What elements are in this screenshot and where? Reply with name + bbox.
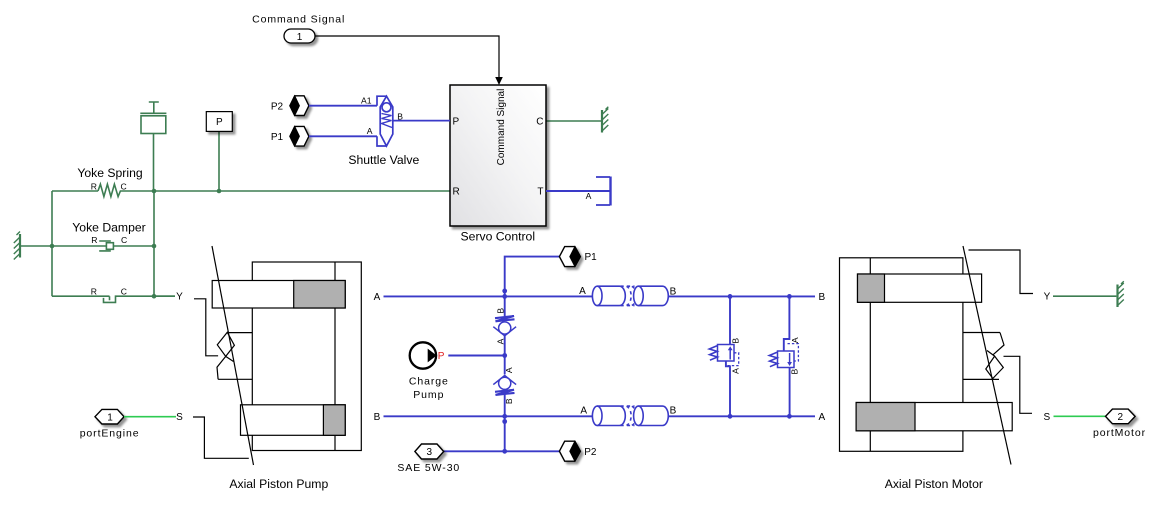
tag P2 (left, to shuttle) xyxy=(290,96,309,116)
label CV1 A xyxy=(495,338,505,344)
damper Yoke Damper symbol xyxy=(99,241,154,251)
tag 3 SAE 5W-30 xyxy=(415,444,444,459)
bracket: motor S port link xyxy=(1004,356,1033,413)
pump valve plate line xyxy=(334,262,336,451)
svg-text:Pump: Pump xyxy=(413,389,444,401)
node: spring/right-rail junction xyxy=(152,189,157,194)
pump joint top line xyxy=(227,332,252,334)
svg-text:Command Signal: Command Signal xyxy=(496,89,507,166)
label shuttle A1 xyxy=(361,96,372,106)
wire: pump B to pipe A (bottom line) xyxy=(384,415,593,417)
wire: RV1 to bottom line xyxy=(726,361,730,416)
svg-text:P: P xyxy=(453,117,460,128)
svg-text:A: A xyxy=(730,368,740,374)
pump bottom piston (gray) xyxy=(323,405,345,436)
node: P2 branch dot xyxy=(502,419,507,424)
svg-text:A: A xyxy=(586,191,592,201)
node: damper/right-rail junction xyxy=(152,244,157,249)
svg-text:R: R xyxy=(91,181,97,191)
label portEngine xyxy=(80,428,140,440)
node: wall/left-rail junction xyxy=(50,244,55,249)
svg-text:Yoke Spring: Yoke Spring xyxy=(77,166,142,180)
label motor A xyxy=(818,412,825,423)
svg-text:T: T xyxy=(537,187,543,198)
wire: top line to RV2 xyxy=(784,296,790,351)
svg-text:Servo Control: Servo Control xyxy=(461,230,536,244)
wire: check valve 1 to charge junction xyxy=(504,336,506,375)
svg-text:B: B xyxy=(670,286,677,297)
label motor B xyxy=(818,292,825,303)
motor swash plate diagonal xyxy=(963,246,1011,465)
svg-text:B: B xyxy=(670,406,677,417)
motor valve plate line xyxy=(869,258,871,452)
svg-text:C: C xyxy=(121,235,127,245)
wire: bottom junction to tag 3 xyxy=(444,450,505,452)
RV1 spring xyxy=(709,346,717,360)
wire: main yoke line to servo R xyxy=(154,190,450,192)
label portMotor xyxy=(1093,427,1146,439)
wire: motor S to portMotor xyxy=(1054,415,1106,417)
label pump S xyxy=(176,412,183,423)
label shuttle B xyxy=(397,111,403,121)
label P2 tap xyxy=(584,447,597,458)
node: top line center crossing xyxy=(502,294,507,299)
RV1 body xyxy=(718,345,735,362)
node: bottom line center crossing xyxy=(502,414,507,419)
wire: portEngine to pump S xyxy=(124,416,176,418)
check valve CV2 (charge to B) xyxy=(493,376,516,395)
svg-text:Axial Piston Pump: Axial Piston Pump xyxy=(229,477,328,491)
RV2 body xyxy=(778,351,795,368)
node: RV1 bottom xyxy=(728,414,733,419)
bracket: motor Y port link xyxy=(969,250,1034,294)
tag P2 (pressure tap bottom) xyxy=(559,441,580,461)
svg-text:A: A xyxy=(367,126,373,136)
wire: servo T to tank xyxy=(546,190,610,192)
motor bottom piston (gray) xyxy=(856,403,915,431)
label RV1 B xyxy=(730,338,740,344)
svg-text:A: A xyxy=(580,406,587,417)
wire: spring row left xyxy=(52,190,98,192)
node: charge pump junction xyxy=(502,353,507,358)
label pipe bottom A xyxy=(580,406,587,417)
svg-text:A: A xyxy=(374,292,381,303)
svg-text:Charge: Charge xyxy=(409,376,449,388)
wire: right rail xyxy=(153,191,155,296)
wire: command signal to servo xyxy=(315,36,503,85)
svg-text:B: B xyxy=(504,398,514,404)
wire: center vertical to P1 xyxy=(505,257,560,297)
label pipe top A xyxy=(579,286,586,297)
ground wall left xyxy=(14,232,20,260)
motor bottom cylinder xyxy=(856,403,1012,431)
label hardstop R C xyxy=(91,287,127,297)
svg-text:C: C xyxy=(536,117,543,128)
svg-text:B: B xyxy=(730,338,740,344)
label SAE 5W-30 xyxy=(397,462,460,474)
wire: RV2 to bottom line xyxy=(789,368,791,417)
svg-text:B: B xyxy=(495,308,505,314)
motor joint bottom line xyxy=(963,378,999,380)
svg-text:C: C xyxy=(121,287,127,297)
pump bottom cylinder xyxy=(241,405,346,436)
label P1 xyxy=(271,132,284,143)
svg-text:Y: Y xyxy=(176,292,183,303)
pipe segment top (A line) xyxy=(592,286,668,305)
relief valve RV2 (right) xyxy=(769,296,798,416)
motor top piston (gray) xyxy=(858,274,885,302)
wire: mass to main line xyxy=(153,134,155,192)
wire: top line to RV1 xyxy=(729,296,731,344)
svg-text:P: P xyxy=(438,351,445,362)
svg-text:P2: P2 xyxy=(584,447,597,458)
node: P sensor junction xyxy=(217,189,222,194)
svg-text:1: 1 xyxy=(297,32,303,43)
svg-text:Yoke Damper: Yoke Damper xyxy=(72,221,145,235)
svg-text:S: S xyxy=(176,412,183,423)
wire: pump A to pipe A (top line) xyxy=(384,295,593,297)
label pump A xyxy=(374,292,381,303)
RV2 pilot dashed xyxy=(788,344,799,361)
label CV2 A xyxy=(504,367,514,373)
svg-text:SAE 5W-30: SAE 5W-30 xyxy=(397,462,460,474)
label pump Y xyxy=(176,292,183,303)
tank (hydraulic reference) at servo T xyxy=(596,177,611,206)
pipe segment bottom (B line) xyxy=(592,406,668,425)
label P2 xyxy=(271,101,284,112)
wire: P2 to shuttle A1 xyxy=(309,105,377,107)
svg-text:portEngine: portEngine xyxy=(80,428,140,440)
svg-text:2: 2 xyxy=(1118,412,1124,423)
hard stop symbol xyxy=(104,296,155,302)
label Yoke Spring xyxy=(77,166,142,180)
shuttle valve U_sv xyxy=(377,96,450,146)
pump joint bottom line xyxy=(218,378,252,380)
pump top cylinder xyxy=(212,281,345,309)
svg-text:Shuttle Valve: Shuttle Valve xyxy=(348,153,419,167)
P sensor block xyxy=(206,112,232,132)
label Shuttle Valve xyxy=(348,153,419,167)
svg-text:P2: P2 xyxy=(271,101,284,112)
label RV1 A xyxy=(730,368,740,374)
label pump B xyxy=(374,412,381,423)
wire: servo C to wall xyxy=(546,120,601,122)
svg-text:A: A xyxy=(504,367,514,373)
label Command Signal annotation xyxy=(252,13,345,25)
motor universal joint upper link xyxy=(987,333,1004,357)
pump universal joint lower link xyxy=(217,356,234,379)
label Axial Piston Motor xyxy=(885,477,983,491)
mass block (yoke mass) xyxy=(140,102,166,134)
wire: P1 to shuttle A xyxy=(309,135,377,137)
label motor Y xyxy=(1044,292,1051,303)
svg-text:Axial Piston Motor: Axial Piston Motor xyxy=(885,477,983,491)
label CV2 B xyxy=(504,398,514,404)
relief valve RV1 (left) xyxy=(709,296,738,416)
label shuttle A xyxy=(367,126,373,136)
wire: hard stop row left xyxy=(52,295,110,297)
bracket: pump Y port link xyxy=(194,299,218,356)
wire: check valve 2 to bottom line xyxy=(504,394,506,451)
label Charge Pump xyxy=(409,376,449,402)
wire: wall to left rail xyxy=(21,245,52,247)
port portMotor hexagon 2 xyxy=(1106,409,1136,424)
wire: damper row left xyxy=(52,245,106,247)
pump universal joint diamond xyxy=(217,332,234,356)
wire: bottom junction to P2 xyxy=(505,450,560,452)
svg-text:B: B xyxy=(374,412,381,423)
wire: charge pump P to center line xyxy=(448,355,504,357)
node: bottom junction to tags xyxy=(502,449,507,454)
wire: top pipe B to motor B xyxy=(668,295,815,297)
pump top piston (gray) xyxy=(294,281,346,309)
wire: bottom pipe B to motor A xyxy=(668,415,815,417)
label Axial Piston Pump xyxy=(229,477,328,491)
junction dots blue xyxy=(502,289,791,454)
motor joint top line xyxy=(963,332,1000,334)
svg-text:S: S xyxy=(1043,412,1050,423)
wire: yoke line to pump Y (green stub) xyxy=(154,295,175,297)
svg-text:Y: Y xyxy=(1044,292,1051,303)
svg-text:1: 1 xyxy=(107,412,113,423)
label Servo Control xyxy=(461,230,536,244)
RV2 spring xyxy=(769,352,777,366)
label Yoke Damper xyxy=(72,221,145,235)
motor universal joint diamond xyxy=(986,356,1004,378)
node: RV1 top xyxy=(728,294,733,299)
wire: center vertical top line to check valve 1 xyxy=(504,296,506,316)
wire: P sensor to main line xyxy=(218,131,220,191)
svg-text:B: B xyxy=(818,292,825,303)
svg-text:B: B xyxy=(397,111,403,121)
node: hardstop/right-rail junction xyxy=(152,294,157,299)
svg-text:R: R xyxy=(453,187,460,198)
tag P1 (pressure tap top) xyxy=(559,247,580,267)
ground wall right of servo C xyxy=(602,107,608,133)
RV1 pilot dashed xyxy=(728,353,739,366)
svg-text:A: A xyxy=(579,286,586,297)
node: RV2 bottom xyxy=(787,414,792,419)
node: RV2 top xyxy=(787,294,792,299)
svg-text:Command Signal: Command Signal xyxy=(252,13,345,25)
svg-text:A1: A1 xyxy=(361,96,372,106)
svg-text:R: R xyxy=(91,235,97,245)
svg-text:R: R xyxy=(91,287,97,297)
label damper R C xyxy=(91,235,127,245)
svg-text:P1: P1 xyxy=(271,132,284,143)
label pipe top B xyxy=(670,286,677,297)
label spring R C xyxy=(91,181,127,191)
label RV2 B xyxy=(789,368,799,374)
svg-text:A: A xyxy=(790,337,800,343)
wire: left rail xyxy=(51,191,53,296)
label pipe bottom B xyxy=(670,406,677,417)
label motor S xyxy=(1043,412,1050,423)
wire: motor Y to wall xyxy=(1053,295,1116,297)
pump Charge Pump circle xyxy=(410,342,437,368)
svg-text:portMotor: portMotor xyxy=(1093,427,1146,439)
svg-text:A: A xyxy=(818,412,825,423)
pump swash plate diagonal xyxy=(212,246,254,465)
node: P1 branch dot xyxy=(502,289,507,294)
svg-text:3: 3 xyxy=(427,447,433,458)
check valve CV1 (charge to A) xyxy=(493,316,516,336)
port portEngine hexagon 1 xyxy=(95,409,124,424)
label tank A xyxy=(586,191,592,201)
ground wall right of motor Y xyxy=(1118,281,1124,307)
inport 1 Command Signal stadium xyxy=(284,29,315,43)
label CV1 B xyxy=(495,308,505,314)
svg-text:A: A xyxy=(495,338,505,344)
wire: hard stop row to Y xyxy=(154,295,175,297)
spring Yoke Spring zigzag xyxy=(98,184,154,196)
label P1 tap xyxy=(585,252,598,263)
svg-text:B: B xyxy=(789,368,799,374)
label RV2 A xyxy=(790,337,800,343)
svg-text:C: C xyxy=(120,181,126,191)
svg-text:P: P xyxy=(216,117,223,128)
label charge pump P (red) xyxy=(438,351,445,362)
motor top cylinder xyxy=(858,274,982,302)
pump case rectangle xyxy=(252,262,361,451)
bracket: pump S port link xyxy=(193,417,249,458)
tag P1 (left, to shuttle) xyxy=(290,126,309,146)
svg-text:P1: P1 xyxy=(585,252,598,263)
junction dots green xyxy=(50,189,222,299)
subsystem Servo Control xyxy=(450,85,546,226)
motor case rectangle xyxy=(840,258,963,452)
